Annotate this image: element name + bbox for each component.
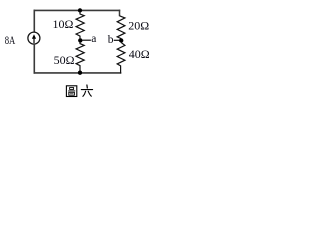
resistor R4 40ohm: [117, 43, 125, 74]
wire top rail: [34, 9, 121, 11]
wire bottom rail: [34, 72, 122, 74]
svg-text:50Ω: 50Ω: [54, 53, 75, 67]
caption glyph TU (figure): [66, 86, 76, 97]
wire right vertical upper: [119, 10, 121, 17]
svg-text:b: b: [108, 34, 114, 46]
node junction bottom middle: [78, 71, 82, 75]
resistor R2 50ohm: [76, 42, 84, 71]
node a: [78, 38, 82, 42]
wire left vertical lower: [33, 44, 35, 74]
svg-text:20Ω: 20Ω: [128, 19, 149, 33]
wire left vertical upper: [33, 10, 35, 33]
current source I1 8A: [28, 32, 40, 44]
svg-text:a: a: [91, 33, 96, 45]
node b: [119, 38, 123, 42]
svg-text:40Ω: 40Ω: [129, 47, 150, 61]
wire node b lead: [114, 39, 120, 41]
svg-text:10Ω: 10Ω: [53, 17, 74, 31]
resistor R1 10ohm: [76, 11, 84, 38]
svg-text:8A: 8A: [5, 35, 16, 47]
node junction top middle: [78, 8, 82, 12]
caption glyph LIU (six): [81, 85, 92, 96]
resistor R3 20ohm: [117, 16, 125, 39]
wire node a lead: [82, 39, 91, 41]
